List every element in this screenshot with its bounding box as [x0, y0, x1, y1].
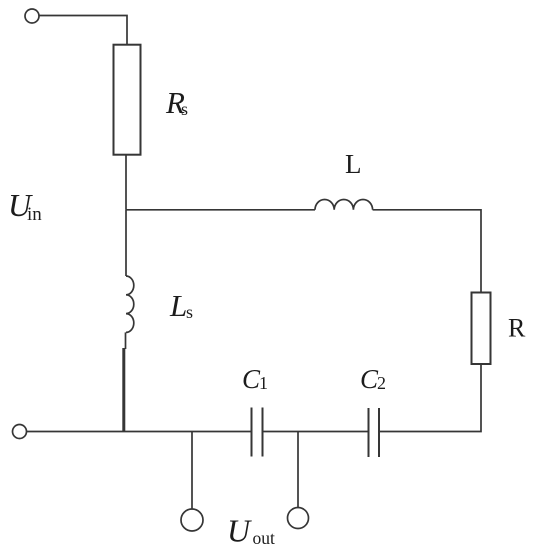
wire C1 to terminal bottom-left [27, 431, 252, 433]
capacitor C1 [252, 408, 263, 457]
svg-text:out: out [253, 528, 276, 548]
svg-text:in: in [27, 204, 42, 225]
wire C2 to C1 [263, 431, 369, 433]
terminal Uout right [288, 508, 309, 529]
wire Ls bottom thin [125, 332, 127, 349]
wire top horizontal [39, 16, 127, 46]
terminal input top [25, 9, 39, 23]
wire L to top-right corner [373, 210, 481, 293]
terminal input bottom [13, 425, 27, 439]
wire output stub left [191, 432, 193, 510]
inductor L [315, 199, 373, 209]
svg-text:U: U [227, 513, 252, 549]
wire output stub right [297, 432, 299, 508]
resistor R [472, 293, 491, 365]
wire node A to inductor L [126, 209, 315, 211]
wire node A to inductor Ls [125, 210, 127, 276]
inductor Ls [126, 276, 134, 332]
wire Rs bottom to node A [125, 155, 127, 210]
resistor Rs [114, 45, 141, 155]
svg-text:1: 1 [259, 373, 268, 393]
wire Ls to bottom rail (bold) [122, 348, 125, 432]
svg-text:L: L [345, 149, 362, 179]
terminal Uout left [181, 509, 203, 531]
capacitor C2 [369, 408, 380, 457]
svg-text:s: s [186, 302, 193, 322]
svg-text:L: L [169, 288, 187, 323]
svg-text:s: s [181, 99, 188, 119]
wire R bottom to bottom-right corner [379, 364, 481, 432]
svg-text:2: 2 [377, 373, 386, 393]
node A [125, 209, 127, 211]
svg-text:R: R [508, 314, 526, 343]
